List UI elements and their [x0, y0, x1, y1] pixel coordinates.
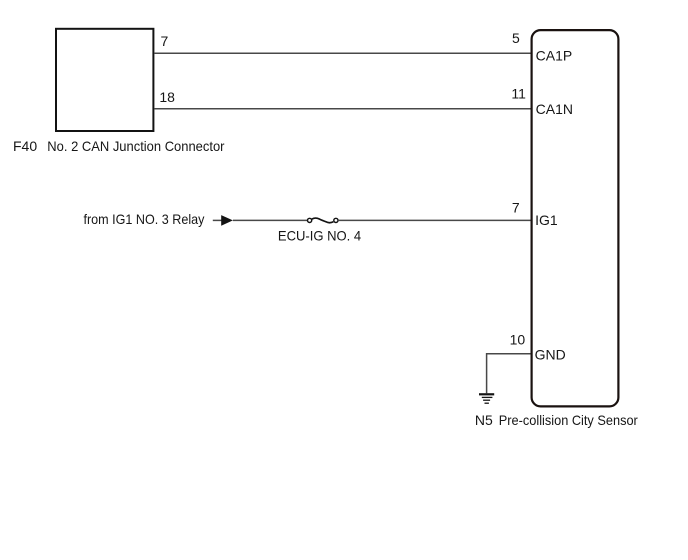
svg-text:CA1N: CA1N — [536, 101, 573, 117]
sensor N5 (Pre-collision City Sensor) — [532, 30, 619, 406]
svg-text:CA1P: CA1P — [536, 47, 573, 63]
svg-text:11: 11 — [511, 86, 526, 102]
wire GND: N5 pin 10 to ground — [487, 354, 531, 393]
ground — [479, 394, 494, 403]
svg-text:GND: GND — [535, 347, 566, 363]
svg-text:IG1: IG1 — [535, 212, 558, 228]
svg-text:N5: N5 — [475, 412, 493, 428]
svg-text:7: 7 — [161, 33, 169, 49]
svg-text:5: 5 — [512, 30, 520, 46]
svg-text:F40: F40 — [13, 138, 37, 154]
svg-text:7: 7 — [512, 200, 520, 216]
wire IG1: fuse to N5 pin 7 — [338, 219, 530, 221]
svg-text:No. 2 CAN Junction Connector: No. 2 CAN Junction Connector — [47, 138, 225, 154]
fuse ECU-IG NO. 4 — [308, 218, 339, 223]
connector F40 (No. 2 CAN Junction Connector) — [56, 29, 153, 131]
wire IG1: arrow to fuse — [233, 219, 307, 221]
arrow: feed from IG1 NO. 3 Relay — [213, 215, 233, 226]
svg-text:Pre-collision City Sensor: Pre-collision City Sensor — [499, 412, 638, 428]
svg-text:ECU-IG NO. 4: ECU-IG NO. 4 — [278, 227, 361, 243]
svg-text:18: 18 — [159, 89, 175, 105]
svg-text:10: 10 — [510, 332, 526, 348]
wire CA1N: F40 pin 18 to N5 pin 11 — [155, 108, 531, 110]
wire CA1P: F40 pin 7 to N5 pin 5 — [155, 52, 531, 54]
svg-text:from IG1 NO. 3 Relay: from IG1 NO. 3 Relay — [84, 211, 205, 227]
